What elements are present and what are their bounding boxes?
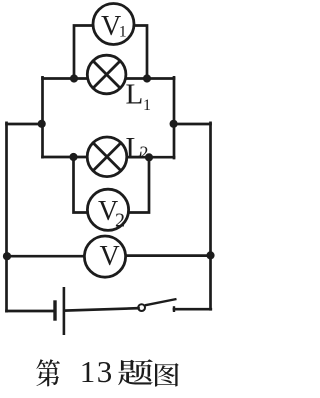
voltmeter V — [84, 236, 125, 277]
wire right rail — [209, 123, 212, 309]
caption char 图 — [155, 363, 179, 386]
label L1 — [126, 79, 152, 115]
wire V2 right stub — [129, 158, 149, 213]
voltmeter V2 — [87, 189, 128, 231]
wire V row right — [126, 254, 211, 257]
wire V row left — [7, 255, 85, 258]
wire right connector L1-L2 — [173, 77, 176, 158]
svg-text:2: 2 — [115, 210, 125, 232]
lamp L2 — [87, 137, 127, 177]
wire left branch to rail — [7, 123, 43, 126]
svg-text:L: L — [126, 79, 144, 111]
lamp L1 — [87, 55, 126, 94]
wire bottom left — [7, 310, 54, 313]
junction dot L1 left — [70, 74, 78, 82]
wire left connector L1-L2 — [41, 77, 44, 157]
svg-text:1: 1 — [143, 97, 151, 114]
battery positive plate (long) — [63, 287, 66, 335]
label L2 — [126, 132, 149, 164]
junction dot L2 right — [145, 153, 153, 161]
wire L2 row right — [127, 156, 174, 159]
junction dot left branch — [38, 120, 46, 128]
switch pivot — [138, 304, 145, 311]
wire V2 left stub — [74, 157, 89, 213]
switch contact tick — [173, 306, 175, 312]
wire L2 row left — [43, 156, 88, 159]
switch blade — [145, 299, 177, 305]
caption char 第 — [36, 359, 60, 386]
caption char 题 — [118, 359, 153, 385]
svg-text:1: 1 — [119, 24, 127, 41]
wire L1 row left — [43, 77, 88, 80]
wire V1 right stub — [134, 26, 147, 78]
wire left rail — [5, 123, 8, 311]
junction dot L1 right — [143, 74, 151, 82]
junction dot right branch — [170, 120, 178, 128]
voltmeter V1 — [93, 4, 134, 45]
wire right branch to rail — [174, 123, 211, 126]
junction dot L2 left — [69, 153, 77, 161]
battery negative plate (short) — [53, 300, 56, 320]
svg-text:13: 13 — [80, 354, 114, 389]
wire bottom mid — [65, 308, 139, 310]
wire V1 left stub — [74, 26, 94, 78]
svg-text:V: V — [100, 241, 120, 272]
wire bottom right — [174, 308, 211, 311]
junction dot V row left — [3, 252, 11, 260]
junction dot V row right — [206, 251, 214, 259]
wire L1 row right — [126, 77, 174, 80]
